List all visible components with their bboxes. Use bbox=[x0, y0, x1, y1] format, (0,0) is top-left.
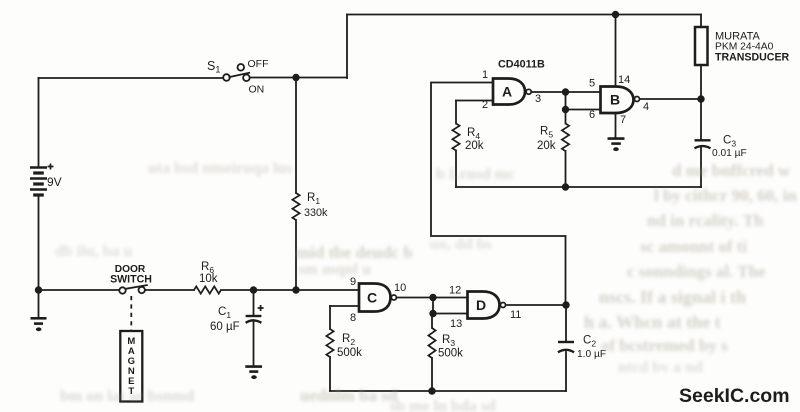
wire C2 top lead bbox=[565, 305, 567, 341]
svg-text:4: 4 bbox=[643, 101, 649, 113]
node junction gate A out pin5 bbox=[562, 88, 569, 95]
node junction transducer C3 gate B out bbox=[697, 95, 704, 102]
wire top rail drop to switch line bbox=[346, 15, 348, 79]
svg-text:330k: 330k bbox=[304, 207, 328, 219]
wire switch to R1 node and top corner bbox=[250, 77, 347, 79]
gate D bubble bbox=[501, 303, 506, 308]
svg-text:A: A bbox=[502, 84, 512, 100]
resistor R1 bbox=[292, 193, 299, 220]
wire node to gate B pin 5 bbox=[566, 91, 601, 93]
ground at battery node bbox=[31, 318, 47, 331]
wire battery bottom lead bbox=[38, 196, 40, 290]
svg-text:9V: 9V bbox=[47, 175, 62, 189]
resistor R4 bbox=[452, 124, 459, 151]
gate D CD4011B bbox=[468, 292, 500, 319]
transducer LS1 bbox=[695, 27, 708, 65]
svg-text:10k: 10k bbox=[199, 273, 218, 285]
svg-text:C3: C3 bbox=[723, 135, 736, 149]
svg-text:14: 14 bbox=[618, 74, 630, 86]
wire C3 bottom lead bbox=[700, 148, 702, 188]
svg-text:500k: 500k bbox=[438, 348, 463, 360]
wire R1 bottom lead bbox=[295, 220, 297, 290]
wire gate C pin 8 bbox=[330, 305, 359, 307]
svg-text:R2: R2 bbox=[342, 333, 355, 347]
svg-text:S1: S1 bbox=[207, 59, 220, 75]
wire gate A pin 2 bbox=[456, 100, 493, 102]
wire R6 to gate C pin 9 bbox=[221, 289, 359, 291]
svg-text:60 µF: 60 µF bbox=[210, 321, 240, 333]
resistor R2 bbox=[326, 329, 333, 357]
wire C1 bottom lead to ground bbox=[253, 321, 255, 366]
wire battery plus to switch bbox=[39, 77, 224, 79]
svg-text:B: B bbox=[610, 92, 620, 108]
resistor R3 bbox=[428, 328, 435, 358]
gate B CD4011B bbox=[601, 87, 634, 114]
wire bottom rail bbox=[330, 390, 566, 392]
magnet letters bbox=[127, 336, 135, 397]
capacitor C1 plus bbox=[258, 305, 264, 311]
svg-text:C: C bbox=[367, 290, 377, 306]
wire R1 top lead bbox=[295, 78, 297, 194]
node junction R3 bottom rail bbox=[428, 387, 435, 394]
svg-text:3: 3 bbox=[535, 93, 541, 105]
svg-text:2: 2 bbox=[482, 99, 488, 111]
svg-text:1: 1 bbox=[482, 69, 488, 81]
svg-text:R5: R5 bbox=[540, 126, 553, 140]
node junction R1 top bbox=[292, 74, 299, 81]
svg-text:R4: R4 bbox=[467, 127, 480, 141]
wire R3 bottom lead bbox=[431, 358, 433, 391]
ground below gate B pin 7 bbox=[608, 139, 625, 152]
wire C3 top lead bbox=[700, 99, 702, 140]
node junction gate C out bbox=[429, 294, 436, 301]
node junction gate D in 13 bbox=[429, 310, 436, 317]
node junction gate D out C2 bbox=[562, 301, 569, 308]
node junction pin6 R5 bbox=[562, 106, 569, 113]
wire node link 5-6 bbox=[565, 92, 567, 110]
wire C2 bottom lead bbox=[565, 352, 567, 391]
svg-text:5: 5 bbox=[589, 78, 595, 90]
wire R2 top lead bbox=[329, 306, 331, 329]
svg-text:6: 6 bbox=[589, 109, 595, 121]
wire gate C output to node bbox=[397, 297, 433, 299]
node junction C1 top bbox=[250, 286, 257, 293]
wire node to gate B pin 6 bbox=[566, 109, 601, 111]
wire C1 top lead bbox=[253, 290, 255, 315]
resistor R6 bbox=[194, 286, 221, 293]
svg-text:7: 7 bbox=[620, 114, 626, 126]
wire node link 12-13 bbox=[432, 298, 434, 314]
wire gate B pin 7 to ground bbox=[615, 113, 617, 138]
wire gate B output to transducer node bbox=[640, 98, 701, 100]
wire gate A output to node bbox=[532, 91, 566, 93]
wire R4 top lead bbox=[455, 101, 457, 124]
wire feedback gate A pin1 loop bbox=[431, 83, 566, 306]
node junction R1 bottom bbox=[292, 286, 299, 293]
svg-text:20k: 20k bbox=[537, 140, 556, 152]
svg-text:SWITCH: SWITCH bbox=[110, 274, 152, 286]
svg-text:R3: R3 bbox=[442, 334, 455, 348]
wire node to gate D pin 12 bbox=[433, 297, 468, 299]
wire ground stem at battery node bbox=[38, 290, 40, 317]
gate A bubble bbox=[526, 89, 531, 94]
gate C bubble bbox=[391, 295, 396, 300]
svg-text:OFF: OFF bbox=[248, 58, 269, 70]
svg-text:12: 12 bbox=[449, 285, 461, 297]
battery B1 9V bbox=[30, 168, 47, 196]
faint bleed-through text background bbox=[148, 160, 293, 178]
node junction R5 bottom line bbox=[562, 183, 569, 190]
svg-text:10: 10 bbox=[394, 282, 406, 294]
svg-text:R1: R1 bbox=[307, 192, 320, 206]
wire door switch line left bbox=[39, 289, 120, 291]
svg-text:TRANSDUCER: TRANSDUCER bbox=[715, 52, 790, 64]
door switch dashed link to magnet bbox=[130, 296, 132, 330]
capacitor C3 bbox=[695, 140, 711, 148]
svg-text:11: 11 bbox=[510, 309, 521, 321]
svg-text:ON: ON bbox=[249, 84, 265, 96]
wire battery top lead bbox=[38, 78, 40, 167]
svg-text:8: 8 bbox=[350, 312, 356, 324]
wire R5 bottom lead bbox=[565, 151, 567, 187]
svg-text:0.01 µF: 0.01 µF bbox=[712, 148, 747, 159]
wire R3 top lead bbox=[431, 314, 433, 329]
svg-text:CD4011B: CD4011B bbox=[498, 59, 545, 71]
switch S1 bbox=[223, 64, 250, 81]
svg-text:SeekIC.com: SeekIC.com bbox=[679, 385, 790, 407]
wire R4 R5 C3 bottom line bbox=[456, 186, 701, 188]
gate B bubble bbox=[635, 97, 640, 102]
wire transducer bottom lead bbox=[700, 65, 702, 99]
resistor R5 bbox=[562, 124, 569, 152]
wire gate B pin 14 bbox=[615, 15, 617, 87]
svg-text:20k: 20k bbox=[465, 140, 484, 152]
wire transducer top lead bbox=[700, 15, 702, 28]
wire R2 bottom lead bbox=[329, 357, 331, 391]
wire node to gate D pin 13 bbox=[433, 313, 468, 315]
node junction top rail pin14 bbox=[612, 11, 619, 18]
capacitor C1 bbox=[246, 316, 262, 323]
svg-text:13: 13 bbox=[450, 318, 462, 330]
wire R4 bottom lead bbox=[455, 151, 457, 188]
wire R5 top lead bbox=[565, 110, 567, 124]
ground below C1 bbox=[245, 367, 262, 380]
magnet box bbox=[120, 331, 142, 402]
gate A CD4011B bbox=[493, 79, 525, 105]
wire gate D output to C2 node bbox=[507, 304, 566, 306]
wire top rail bbox=[347, 14, 701, 16]
capacitor C2 bbox=[558, 342, 574, 352]
battery plus label bbox=[48, 164, 54, 170]
door switch bbox=[119, 285, 148, 294]
svg-text:C2: C2 bbox=[583, 335, 596, 349]
svg-text:500k: 500k bbox=[337, 347, 362, 359]
wire door switch to R6 bbox=[145, 289, 194, 291]
gate C CD4011B bbox=[359, 284, 391, 312]
svg-text:C1: C1 bbox=[218, 306, 231, 320]
svg-text:D: D bbox=[476, 297, 486, 313]
node junction battery door wire bbox=[35, 286, 42, 293]
